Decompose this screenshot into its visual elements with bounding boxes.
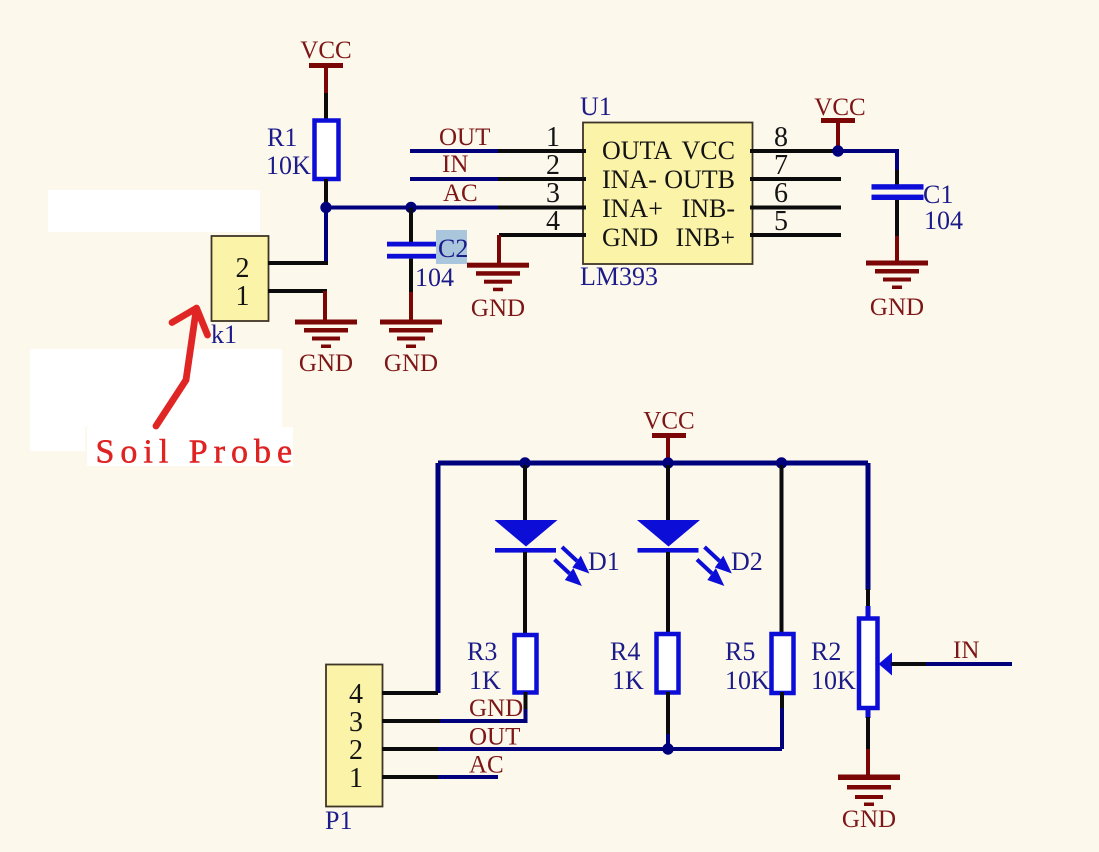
wire R2 wiper stub (891, 662, 927, 666)
wire P1 pin 4 stub (382, 691, 438, 695)
wire U1 pin 4 to ground (497, 235, 501, 263)
wire k1 pin 1 stub (268, 289, 327, 293)
ground symbol (U1 pin 4) (467, 263, 529, 322)
label C2 (highlighted) (436, 230, 468, 264)
wire VCC to R1 pin 1 (324, 93, 328, 121)
wire R4 to OUT net (666, 734, 670, 749)
wire R2 to ground (866, 749, 870, 775)
white patch behind Soil Probe text (87, 427, 293, 466)
LED D2 (637, 520, 700, 553)
svg-text:C2: C2 (438, 234, 468, 263)
wire k1 pin 1 to ground (323, 291, 327, 320)
node A junction dot (320, 202, 331, 213)
wire U1 pin 6 stub (750, 206, 841, 210)
power symbol VCC (bottom section) (643, 408, 694, 464)
node F junction dot (bus/R5) (776, 457, 787, 468)
wire OUT net (410, 149, 498, 153)
svg-text:4: 4 (349, 679, 363, 710)
svg-text:IN: IN (953, 637, 979, 664)
svg-text:R2: R2 (811, 637, 841, 666)
wire node C to C1 (838, 151, 897, 171)
resistor R5 (772, 634, 794, 693)
svg-text:AC: AC (443, 180, 478, 207)
wire U1 pin 4 stub (499, 233, 586, 237)
resistor R1 (315, 121, 339, 180)
svg-text:INA+: INA+ (602, 194, 663, 223)
wire IN net (to R2 wiper) (926, 662, 1012, 666)
wire D1 cathode to R3 (523, 552, 527, 636)
connector k1 (212, 236, 269, 321)
svg-text:U1: U1 (580, 92, 612, 121)
svg-text:10K: 10K (266, 151, 311, 180)
svg-text:AC: AC (469, 752, 504, 779)
svg-text:7: 7 (774, 150, 788, 181)
svg-text:GND: GND (384, 350, 438, 377)
svg-text:1: 1 (349, 763, 363, 794)
svg-text:INB+: INB+ (676, 223, 735, 252)
wire bus to R5 (780, 465, 784, 635)
svg-text:LM393: LM393 (580, 262, 658, 291)
svg-text:VCC: VCC (643, 408, 694, 435)
LED D1 emission arrows (555, 547, 586, 583)
svg-text:10K: 10K (811, 666, 856, 695)
svg-text:GND: GND (469, 695, 523, 722)
capacitor C1 (872, 184, 924, 200)
svg-text:OUT: OUT (469, 724, 520, 751)
annotation arrow (Soil Probe) (156, 308, 208, 426)
svg-text:R3: R3 (467, 637, 497, 666)
connector P1 (326, 665, 383, 807)
svg-text:P1: P1 (325, 806, 352, 835)
power symbol VCC (top, above R1) (300, 37, 351, 93)
wire U1 pin 3 stub (498, 206, 586, 210)
wire R3 pin 2 down (524, 692, 528, 711)
svg-text:VCC: VCC (300, 37, 351, 64)
svg-text:1K: 1K (469, 666, 501, 695)
svg-text:104: 104 (415, 263, 454, 292)
wire P1 pin 2 stub (382, 747, 440, 751)
node C junction dot (pin 8 / VCC) (832, 145, 843, 156)
LED D1 (495, 520, 558, 553)
ground symbol (R2) (838, 775, 900, 834)
svg-text:OUTA: OUTA (602, 136, 672, 165)
svg-text:4: 4 (546, 206, 560, 237)
svg-text:2: 2 (236, 253, 250, 284)
svg-text:R4: R4 (610, 637, 640, 666)
resistor R4 (657, 634, 679, 693)
wire U1 pin 8 stub (750, 149, 838, 153)
svg-text:IN: IN (442, 151, 468, 178)
wire C2 pin 2 down (409, 259, 413, 292)
svg-text:10K: 10K (725, 666, 770, 695)
wire IN net (410, 177, 498, 181)
svg-text:VCC: VCC (682, 136, 735, 165)
svg-text:GND: GND (471, 295, 525, 322)
wire C1 to ground (895, 236, 899, 261)
wire P1 pin 3 stub (382, 719, 440, 723)
LED D2 emission arrows (697, 547, 728, 583)
wire VCC bus horizontal (438, 461, 868, 466)
svg-text:INA-: INA- (602, 165, 657, 194)
svg-text:GND: GND (870, 294, 924, 321)
wire to R2 pin 1 (866, 589, 870, 608)
white patch upper-left (48, 190, 260, 232)
wire P1 pin 1 stub (382, 775, 440, 779)
svg-text:R1: R1 (267, 123, 297, 152)
svg-text:6: 6 (774, 178, 788, 209)
svg-text:5: 5 (774, 206, 788, 237)
resistor R3 (515, 635, 537, 693)
wire C2 to ground (409, 292, 413, 320)
svg-text:R5: R5 (725, 637, 755, 666)
svg-text:1: 1 (236, 281, 250, 312)
svg-text:3: 3 (349, 707, 363, 738)
wire R1 pin 2 to node A (324, 179, 328, 206)
wire R2 pin 2 down (866, 717, 870, 750)
svg-text:GND: GND (602, 223, 658, 252)
wire bus right vertical to R2 (866, 463, 871, 590)
svg-text:2: 2 (546, 150, 560, 181)
ground symbol (C2) (380, 320, 442, 378)
svg-text:1K: 1K (612, 666, 644, 695)
svg-text:Soil Probe: Soil Probe (96, 434, 299, 471)
wire R4 pin 2 down (666, 692, 670, 736)
ground symbol (k1 pin 1) (295, 320, 357, 378)
wire U1 pin 5 stub (750, 233, 841, 237)
svg-text:GND: GND (842, 806, 896, 833)
wire OUT net horizontal (438, 747, 782, 751)
svg-text:104: 104 (924, 206, 963, 235)
node D junction dot (bus/D1) (519, 457, 530, 468)
wire R3 to pin 3 net (438, 709, 526, 721)
wire U1 pin 7 stub (750, 177, 841, 181)
wire node A down to k1 pin 2 (324, 208, 328, 264)
wire AC net stub (438, 775, 498, 779)
svg-text:VCC: VCC (814, 94, 865, 121)
svg-text:OUT: OUT (439, 124, 490, 151)
capacitor C2 (387, 242, 436, 259)
svg-text:D1: D1 (588, 547, 620, 576)
wire k1 pin 2 stub (268, 261, 328, 265)
wire D2 cathode to R4 (666, 552, 670, 635)
svg-text:8: 8 (774, 122, 788, 153)
wire AC net horizontal (324, 206, 498, 210)
wire node B to C2 pin 1 (409, 208, 413, 243)
wire C1 pin 2 down (895, 200, 899, 237)
node E junction dot (bus/VCC) (662, 457, 673, 468)
wire bus to D1 anode (523, 465, 527, 521)
op-amp U1 body (583, 123, 753, 265)
white patch around annotation arrow (30, 349, 282, 427)
svg-text:GND: GND (299, 350, 353, 377)
svg-text:OUTB: OUTB (664, 165, 735, 194)
svg-text:k1: k1 (211, 320, 237, 349)
ground symbol (C1) (866, 261, 928, 322)
wire bus to D2 anode (666, 465, 670, 521)
wire U1 pin 2 stub (498, 177, 586, 181)
potentiometer R2 (859, 606, 892, 718)
svg-text:1: 1 (546, 122, 560, 153)
svg-text:D2: D2 (731, 547, 763, 576)
wire bus left vertical (436, 463, 441, 693)
wire R5 pin 2 down (780, 692, 784, 710)
svg-text:3: 3 (546, 178, 560, 209)
svg-text:C1: C1 (923, 180, 953, 209)
node G junction dot (R4/OUT net) (662, 743, 673, 754)
wire to C1 pin 1 (895, 170, 899, 185)
svg-text:2: 2 (349, 735, 363, 766)
power symbol VCC (right of U1) (814, 94, 865, 151)
node B junction dot (above C2) (405, 202, 416, 213)
white patch left strip (30, 427, 85, 451)
wire R5 to OUT net (780, 708, 784, 749)
svg-text:INB-: INB- (682, 194, 735, 223)
wire U1 pin 1 stub (498, 149, 586, 153)
